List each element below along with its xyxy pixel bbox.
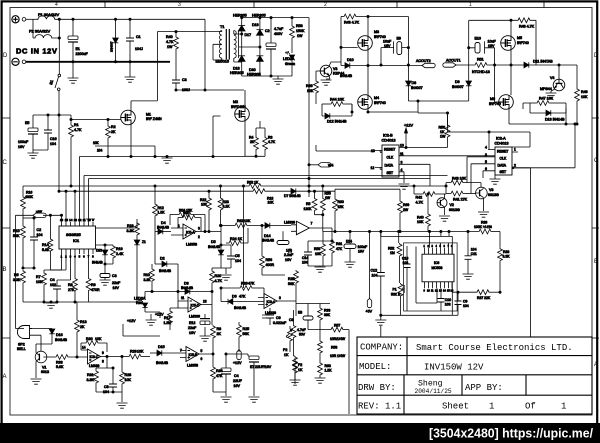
svg-text:6: 6 <box>201 357 203 361</box>
svg-text:3.3K: 3.3K <box>127 229 135 233</box>
svg-text:Z1: Z1 <box>142 240 146 244</box>
svg-text:D4: D4 <box>161 221 166 225</box>
svg-text:R34: R34 <box>216 369 223 373</box>
svg-text:KSP44: KSP44 <box>333 72 344 76</box>
svg-text:[3504x2480] https://upic.me/: [3504x2480] https://upic.me/ <box>429 427 594 441</box>
svg-text:104: 104 <box>372 274 378 278</box>
svg-text:LM339: LM339 <box>189 315 200 319</box>
svg-text:M2: M2 <box>233 100 238 104</box>
svg-text:22UF/16V: 22UF/16V <box>255 365 272 369</box>
svg-text:R52 1K: R52 1K <box>247 181 259 185</box>
svg-text:SP2: SP2 <box>18 343 25 347</box>
svg-text:R62: R62 <box>237 219 244 223</box>
svg-text:DATA: DATA <box>498 164 507 168</box>
svg-text:IN4007: IN4007 <box>411 86 423 90</box>
svg-text:3.1K: 3.1K <box>223 205 231 209</box>
svg-text:DRW BY:: DRW BY: <box>358 383 396 393</box>
svg-text:16V: 16V <box>234 384 241 388</box>
svg-text:10K: 10K <box>268 201 275 205</box>
svg-text:D23: D23 <box>96 249 102 253</box>
svg-text:R22: R22 <box>200 198 206 202</box>
svg-text:16: 16 <box>60 218 64 222</box>
svg-text:M3: M3 <box>374 30 379 34</box>
svg-text:56K: 56K <box>243 332 250 336</box>
svg-text:IRF740: IRF740 <box>489 102 501 106</box>
svg-text:10K: 10K <box>417 220 424 224</box>
svg-text:COMPANY:: COMPANY: <box>360 343 403 353</box>
svg-text:RESET: RESET <box>497 150 508 154</box>
svg-text:MPS44: MPS44 <box>540 87 552 91</box>
svg-text:16V: 16V <box>384 44 391 48</box>
svg-text:22uF: 22uF <box>112 281 121 285</box>
svg-text:E14: E14 <box>346 240 352 244</box>
svg-text:CLK: CLK <box>387 156 394 160</box>
svg-text:R29: R29 <box>130 350 137 354</box>
svg-text:104: 104 <box>50 142 56 146</box>
svg-text:R1: R1 <box>74 123 79 127</box>
svg-text:R26: R26 <box>241 282 248 286</box>
svg-text:10K: 10K <box>137 350 144 354</box>
svg-text:10K: 10K <box>125 378 132 382</box>
svg-text:V1: V1 <box>42 366 46 370</box>
svg-text:P1: P1 <box>393 288 397 292</box>
svg-text:8: 8 <box>102 360 104 364</box>
svg-text:V3: V3 <box>489 188 493 192</box>
svg-text:SG3525: SG3525 <box>66 232 81 237</box>
svg-text:4.7K: 4.7K <box>215 279 223 283</box>
svg-text:C3: C3 <box>182 78 187 82</box>
svg-text:NTCHD-13: NTCHD-13 <box>472 70 490 74</box>
svg-text:F2 30A/32V: F2 30A/32V <box>29 29 50 34</box>
svg-text:R48 4.7K: R48 4.7K <box>519 25 535 29</box>
svg-text:HER305: HER305 <box>230 71 244 75</box>
svg-text:3.3K: 3.3K <box>13 278 21 282</box>
svg-text:4.7K: 4.7K <box>74 128 82 132</box>
svg-text:D15: D15 <box>158 345 165 349</box>
svg-text:103: 103 <box>445 303 451 307</box>
svg-text:E8: E8 <box>298 311 302 315</box>
svg-text:1W: 1W <box>167 45 173 49</box>
svg-text:D19: D19 <box>252 23 259 27</box>
svg-text:11: 11 <box>83 218 86 222</box>
svg-text:IC5-A: IC5-A <box>186 231 195 235</box>
svg-text:C16: C16 <box>50 137 57 141</box>
svg-text:IN414B: IN414B <box>157 226 170 230</box>
svg-text:T1: T1 <box>220 25 224 29</box>
svg-text:10R/1/4W: 10R/1/4W <box>330 337 346 341</box>
svg-text:1W: 1W <box>297 34 303 38</box>
svg-text:D: D <box>594 53 599 59</box>
svg-text:R3: R3 <box>268 136 272 140</box>
svg-text:Red: Red <box>136 301 143 305</box>
svg-text:C4: C4 <box>50 278 55 282</box>
svg-text:R58: R58 <box>331 346 337 350</box>
svg-text:D17: D17 <box>245 33 252 37</box>
svg-text:R20: R20 <box>215 274 222 278</box>
svg-text:A: A <box>594 362 598 368</box>
svg-text:C4: C4 <box>234 374 239 378</box>
svg-text:D13 IN414B: D13 IN414B <box>545 118 565 122</box>
svg-text:C2: C2 <box>37 228 42 232</box>
svg-text:R49: R49 <box>581 90 588 94</box>
svg-text:16V: 16V <box>18 145 25 149</box>
svg-text:DATA: DATA <box>385 164 394 168</box>
svg-text:V4: V4 <box>550 76 554 80</box>
svg-text:C11: C11 <box>471 252 477 256</box>
svg-text:LM358: LM358 <box>186 243 197 247</box>
svg-text:56K: 56K <box>288 282 295 286</box>
svg-text:2004/11/25: 2004/11/25 <box>415 388 452 395</box>
svg-text:C6: C6 <box>276 316 281 320</box>
svg-text:R51: R51 <box>477 58 484 62</box>
svg-text:1W: 1W <box>440 135 446 139</box>
svg-text:R6: R6 <box>14 273 19 277</box>
svg-text:E5: E5 <box>25 121 29 125</box>
svg-text:10: 10 <box>400 144 404 148</box>
svg-text:ACOUT2: ACOUT2 <box>416 59 431 63</box>
svg-text:2200uF: 2200uF <box>76 52 89 56</box>
svg-text:R8: R8 <box>217 327 222 331</box>
svg-text:16V: 16V <box>113 286 120 290</box>
svg-text:IC2-B: IC2-B <box>383 134 393 138</box>
svg-text:R12: R12 <box>158 206 164 210</box>
svg-text:P2: P2 <box>283 348 287 352</box>
svg-text:IN414B: IN414B <box>234 306 247 310</box>
svg-text:4: 4 <box>401 168 403 172</box>
svg-text:R30: R30 <box>86 337 93 341</box>
svg-text:D3: D3 <box>184 282 189 286</box>
svg-text:104: 104 <box>97 149 103 153</box>
svg-text:R33: R33 <box>324 309 330 313</box>
svg-text:4.7K: 4.7K <box>166 40 174 44</box>
svg-text:M1: M1 <box>146 113 151 117</box>
svg-text:R25: R25 <box>243 327 250 331</box>
svg-text:2K: 2K <box>111 130 116 134</box>
svg-text:IC6: IC6 <box>434 261 439 265</box>
svg-text:LED2A: LED2A <box>283 57 295 61</box>
svg-text:DC IN 12V: DC IN 12V <box>16 47 58 56</box>
svg-text:1N4007: 1N4007 <box>110 41 114 52</box>
svg-text:C8: C8 <box>104 385 109 389</box>
svg-text:LM339: LM339 <box>284 221 295 225</box>
svg-text:D6: D6 <box>232 295 237 299</box>
svg-text:E7: E7 <box>250 365 254 369</box>
svg-text:1K: 1K <box>440 130 445 134</box>
svg-text:1: 1 <box>514 148 516 152</box>
svg-text:D11 IN4TAB: D11 IN4TAB <box>533 60 553 64</box>
svg-text:B: B <box>3 267 7 273</box>
svg-text:2K: 2K <box>217 332 222 336</box>
svg-text:+12V: +12V <box>233 361 242 365</box>
svg-text:11: 11 <box>400 152 404 156</box>
svg-text:V3: V3 <box>333 67 337 71</box>
svg-text:MC508: MC508 <box>432 266 443 270</box>
svg-text:12: 12 <box>78 218 82 222</box>
svg-text:11: 11 <box>181 296 185 300</box>
svg-text:2: 2 <box>324 2 327 8</box>
svg-text:1(5): 1(5) <box>286 249 292 253</box>
svg-text:104: 104 <box>463 304 469 308</box>
svg-text:D10: D10 <box>347 58 354 62</box>
svg-text:R19: R19 <box>116 247 123 251</box>
svg-text:LM339: LM339 <box>265 311 276 315</box>
svg-text:+12V: +12V <box>155 313 164 317</box>
svg-text:IN414B: IN414B <box>159 269 172 273</box>
svg-text:IN414B: IN414B <box>92 261 103 265</box>
svg-text:IC5-B: IC5-B <box>189 353 198 357</box>
svg-text:D: D <box>3 53 8 59</box>
svg-text:47K: 47K <box>216 374 223 378</box>
svg-text:LED2A: LED2A <box>134 297 146 301</box>
svg-text:LM358: LM358 <box>187 364 198 368</box>
svg-text:IN414B: IN414B <box>156 361 169 365</box>
svg-text:+5V: +5V <box>366 310 373 314</box>
svg-text:10K: 10K <box>95 337 102 341</box>
svg-text:4.7K: 4.7K <box>416 201 424 205</box>
svg-text:15K: 15K <box>338 205 345 209</box>
svg-text:104J: 104J <box>135 47 143 51</box>
svg-text:R43 10K: R43 10K <box>452 177 467 181</box>
svg-text:10K: 10K <box>201 203 208 207</box>
svg-text:D5: D5 <box>211 240 216 244</box>
svg-text:R9: R9 <box>91 283 96 287</box>
svg-text:C14: C14 <box>302 256 308 260</box>
svg-text:E12: E12 <box>189 321 195 325</box>
svg-text:22UF: 22UF <box>233 379 243 383</box>
svg-text:B: B <box>594 259 598 265</box>
svg-text:IRF740: IRF740 <box>374 101 386 105</box>
svg-text:1W: 1W <box>325 196 331 200</box>
svg-text:10uF: 10uF <box>488 40 497 44</box>
svg-text:C2: C2 <box>265 29 270 33</box>
svg-text:47K: 47K <box>239 295 246 299</box>
svg-text:M5: M5 <box>517 36 522 40</box>
svg-text:R69: R69 <box>403 203 409 207</box>
svg-text:50V: 50V <box>299 333 306 337</box>
svg-text:E1: E1 <box>76 47 80 51</box>
svg-text:4: 4 <box>55 2 58 8</box>
svg-text:HER305: HER305 <box>233 14 247 18</box>
svg-text:5.6K: 5.6K <box>42 248 50 252</box>
svg-text:C: C <box>3 160 8 166</box>
svg-text:1.5K: 1.5K <box>158 211 166 215</box>
svg-text:RESET: RESET <box>384 148 395 152</box>
svg-text:D18: D18 <box>233 67 240 71</box>
svg-text:MODEL:: MODEL: <box>359 362 391 372</box>
svg-text:13: 13 <box>74 218 78 222</box>
svg-text:F1 30A/32V: F1 30A/32V <box>38 12 59 17</box>
svg-text:R13: R13 <box>80 320 87 324</box>
svg-text:R60: R60 <box>338 200 344 204</box>
svg-text:3: 3 <box>485 153 487 157</box>
svg-text:10K: 10K <box>307 89 314 93</box>
svg-text:R52: R52 <box>388 247 394 251</box>
svg-text:56K: 56K <box>13 234 20 238</box>
svg-text:4: 4 <box>485 146 487 150</box>
svg-text:R8: R8 <box>68 283 73 287</box>
svg-text:13: 13 <box>203 300 207 304</box>
svg-text:27K: 27K <box>68 288 75 292</box>
svg-text:470R: 470R <box>91 288 100 292</box>
svg-text:5: 5 <box>485 160 487 164</box>
svg-text:E9: E9 <box>397 37 401 41</box>
svg-text:1: 1 <box>489 402 494 412</box>
svg-text:9013G: 9013G <box>449 208 460 212</box>
svg-text:R25: R25 <box>288 277 295 281</box>
svg-text:A: A <box>3 374 7 380</box>
svg-text:400V: 400V <box>274 32 283 36</box>
svg-text:D12 IN414B: D12 IN414B <box>327 120 347 124</box>
svg-text:R16: R16 <box>26 191 32 195</box>
svg-text:x2W: x2W <box>36 210 42 214</box>
svg-text:R24 1K: R24 1K <box>230 237 243 241</box>
svg-text:R15: R15 <box>13 229 20 233</box>
svg-text:SET: SET <box>387 171 394 175</box>
svg-text:Smart Course Electronics LTD.: Smart Course Electronics LTD. <box>416 343 573 353</box>
svg-text:16V: 16V <box>358 250 365 254</box>
svg-text:3.3K: 3.3K <box>503 255 511 259</box>
svg-text:IC2-A: IC2-A <box>496 137 506 141</box>
svg-text:1K: 1K <box>298 368 303 372</box>
svg-text:2.4K: 2.4K <box>116 252 124 256</box>
svg-text:R56: R56 <box>266 258 273 262</box>
svg-text:100uF: 100uF <box>18 140 29 144</box>
svg-text:R57: R57 <box>334 324 340 328</box>
svg-text:16V: 16V <box>189 331 196 335</box>
svg-text:CD4013: CD4013 <box>382 139 396 143</box>
svg-text:BELL: BELL <box>17 347 26 351</box>
svg-text:D7 IN414B: D7 IN414B <box>284 194 301 198</box>
svg-text:100K +/-1%: 100K +/-1% <box>474 225 492 229</box>
svg-text:R58: R58 <box>314 247 320 251</box>
svg-text:1K: 1K <box>284 353 289 357</box>
svg-text:IC3-4: IC3-4 <box>267 300 275 304</box>
svg-text:IN4007: IN4007 <box>452 85 464 89</box>
svg-text:50K B: 50K B <box>391 293 401 297</box>
svg-text:10K: 10K <box>244 219 251 223</box>
svg-text:R63: R63 <box>325 364 331 368</box>
svg-text:104: 104 <box>403 261 409 265</box>
svg-text:5.6K: 5.6K <box>56 365 64 369</box>
svg-text:C1: C1 <box>136 35 141 39</box>
svg-text:LM339: LM339 <box>89 364 99 368</box>
svg-text:R47 10K: R47 10K <box>539 97 554 101</box>
svg-text:IC1: IC1 <box>73 238 80 243</box>
svg-text:1.5K: 1.5K <box>325 369 333 373</box>
svg-text:D8: D8 <box>412 81 417 85</box>
svg-text:R7: R7 <box>36 275 41 279</box>
svg-text:22uF: 22uF <box>188 326 197 330</box>
svg-text:W4: W4 <box>328 163 333 167</box>
svg-text:10K: 10K <box>581 95 588 99</box>
svg-text:150K: 150K <box>296 29 305 33</box>
svg-text:R1A: R1A <box>42 243 50 247</box>
svg-text:R17: R17 <box>164 316 171 320</box>
svg-text:CLK: CLK <box>500 157 507 161</box>
svg-text:2: 2 <box>198 235 200 239</box>
svg-text:R31: R31 <box>87 373 94 377</box>
svg-text:14: 14 <box>82 346 86 350</box>
svg-text:15: 15 <box>65 218 69 222</box>
svg-text:R43 4.7K: R43 4.7K <box>344 21 360 25</box>
svg-text:3.3K: 3.3K <box>144 278 152 282</box>
svg-text:102: 102 <box>50 283 56 287</box>
svg-text:2K: 2K <box>80 325 85 329</box>
svg-text:C10: C10 <box>445 298 451 302</box>
svg-text:SET: SET <box>500 170 507 174</box>
svg-text:M4: M4 <box>374 96 379 100</box>
svg-text:ACOUT1: ACOUT1 <box>446 59 461 63</box>
svg-text:10K: 10K <box>183 211 190 215</box>
svg-text:47K: 47K <box>336 247 343 251</box>
svg-text:REV: 1.1: REV: 1.1 <box>358 402 401 412</box>
svg-text:0.022uF: 0.022uF <box>273 321 287 325</box>
svg-text:IN414B: IN414B <box>208 245 221 249</box>
svg-text:104: 104 <box>37 233 43 237</box>
svg-text:12: 12 <box>371 166 375 170</box>
svg-text:R23: R23 <box>223 200 229 204</box>
svg-text:400R: 400R <box>266 263 275 267</box>
svg-text:Sheng: Sheng <box>418 379 443 389</box>
svg-text:R55: R55 <box>325 192 331 196</box>
svg-text:3.3K: 3.3K <box>87 378 95 382</box>
svg-text:IC5-D: IC5-D <box>191 304 200 308</box>
svg-text:3: 3 <box>198 227 200 231</box>
svg-text:2W: 2W <box>403 208 409 212</box>
svg-text:4.7K: 4.7K <box>268 140 276 144</box>
svg-text:R23: R23 <box>127 224 134 228</box>
svg-text:R50: R50 <box>439 126 446 130</box>
svg-text:+12V: +12V <box>127 319 136 323</box>
svg-text:D16: D16 <box>56 333 63 337</box>
svg-text:5: 5 <box>201 349 203 353</box>
svg-text:10uF: 10uF <box>383 40 392 44</box>
svg-text:C3: C3 <box>112 274 117 278</box>
svg-text:C9: C9 <box>463 299 467 303</box>
svg-text:104: 104 <box>471 248 477 252</box>
svg-text:IC3-C: IC3-C <box>90 355 99 359</box>
svg-text:R2: R2 <box>111 125 116 129</box>
svg-text:2: 2 <box>514 164 516 168</box>
svg-text:16V: 16V <box>285 258 292 262</box>
svg-text:R41 27K: R41 27K <box>453 198 468 202</box>
svg-text:10K: 10K <box>315 252 322 256</box>
svg-text:16V: 16V <box>488 44 495 48</box>
svg-text:IN414B: IN414B <box>181 286 194 290</box>
svg-text:9: 9 <box>102 351 104 355</box>
svg-text:IRF740: IRF740 <box>374 35 386 39</box>
svg-text:F2: F2 <box>298 363 302 367</box>
svg-text:104: 104 <box>235 259 241 263</box>
svg-text:10K: 10K <box>36 280 43 284</box>
svg-text:R61: R61 <box>336 242 342 246</box>
svg-text:R44 10K: R44 10K <box>330 98 345 102</box>
svg-text:R28: R28 <box>125 373 132 377</box>
svg-text:47K: 47K <box>248 282 255 286</box>
svg-text:1: 1 <box>561 402 566 412</box>
svg-text:R42: R42 <box>416 196 423 200</box>
svg-text:C5: C5 <box>235 254 240 258</box>
svg-text:APP BY:: APP BY: <box>465 383 503 393</box>
svg-text:2K: 2K <box>250 140 255 144</box>
svg-text:V2: V2 <box>450 203 454 207</box>
svg-text:120K: 120K <box>304 207 313 211</box>
svg-text:R40: R40 <box>417 216 424 220</box>
svg-text:C8: C8 <box>289 318 294 322</box>
svg-text:100uF: 100uF <box>358 245 368 249</box>
svg-text:D9: D9 <box>455 80 460 84</box>
svg-text:10R 1/4W: 10R 1/4W <box>330 354 346 358</box>
